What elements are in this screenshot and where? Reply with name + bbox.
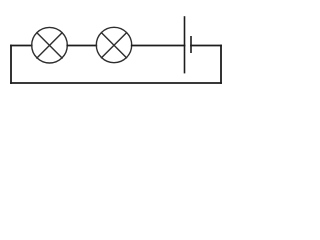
wire: top-left horizontal from left corner to lamp L1 — [11, 45, 32, 47]
battery B1 negative plate (short line) — [190, 36, 192, 53]
wire: right vertical — [220, 46, 222, 84]
wire: left vertical — [10, 46, 12, 84]
lamp L2 (circle with X) — [96, 27, 131, 62]
battery B1 positive plate (long line) — [184, 16, 186, 73]
wire: bottom horizontal — [11, 82, 221, 84]
wire: between lamp L1 and lamp L2 — [67, 45, 96, 47]
wire: lamp L2 to battery positive plate — [132, 45, 185, 47]
lamp L1 (circle with X) — [32, 27, 68, 63]
wire: battery negative plate to top-right corner — [191, 45, 221, 47]
